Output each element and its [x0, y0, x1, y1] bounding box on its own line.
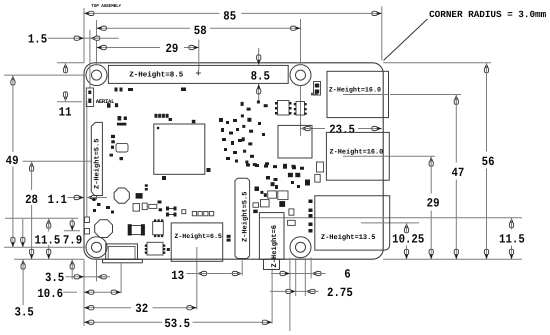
svg-text:29: 29	[427, 197, 440, 211]
svg-text:2.75: 2.75	[327, 286, 353, 300]
svg-text:23.5: 23.5	[329, 123, 355, 137]
svg-text:3.5: 3.5	[15, 305, 34, 319]
svg-text:Z-Height=8.5: Z-Height=8.5	[129, 70, 184, 79]
svg-text:1.5: 1.5	[28, 32, 47, 46]
svg-text:TOP ASSEMBLY: TOP ASSEMBLY	[91, 4, 121, 9]
svg-text:53.5: 53.5	[164, 317, 190, 331]
svg-text:7.9: 7.9	[63, 233, 82, 247]
svg-text:13: 13	[171, 269, 184, 283]
svg-text:8.5: 8.5	[251, 70, 270, 84]
svg-text:AERIAL: AERIAL	[96, 98, 115, 105]
svg-text:1.1: 1.1	[48, 193, 68, 207]
svg-text:Z-Height=5.5: Z-Height=5.5	[93, 139, 102, 189]
svg-text:Z-Height=13.5: Z-Height=13.5	[321, 233, 376, 242]
svg-text:58: 58	[194, 24, 207, 38]
svg-text:11.5: 11.5	[499, 232, 525, 246]
svg-text:32: 32	[135, 302, 148, 316]
svg-text:3.5: 3.5	[45, 271, 64, 285]
svg-text:11: 11	[59, 105, 72, 119]
svg-text:Z-Height=6.5: Z-Height=6.5	[174, 233, 222, 240]
svg-text:10.25: 10.25	[392, 232, 424, 246]
svg-text:Z-Height=16.0: Z-Height=16.0	[330, 149, 384, 157]
svg-text:49: 49	[6, 154, 19, 168]
svg-text:Z-Height=16.0: Z-Height=16.0	[329, 86, 381, 94]
svg-text:56: 56	[482, 155, 495, 169]
svg-text:6: 6	[344, 267, 350, 281]
svg-text:CORNER RADIUS = 3.0mm: CORNER RADIUS = 3.0mm	[429, 9, 547, 20]
svg-text:Z-Height=6: Z-Height=6	[270, 225, 279, 268]
svg-text:85: 85	[223, 9, 236, 23]
svg-text:29: 29	[165, 42, 178, 56]
svg-text:47: 47	[451, 166, 464, 180]
svg-text:Z-Height=5.5: Z-Height=5.5	[240, 192, 249, 242]
svg-text:10.6: 10.6	[37, 287, 63, 301]
svg-text:11.5: 11.5	[35, 233, 61, 247]
